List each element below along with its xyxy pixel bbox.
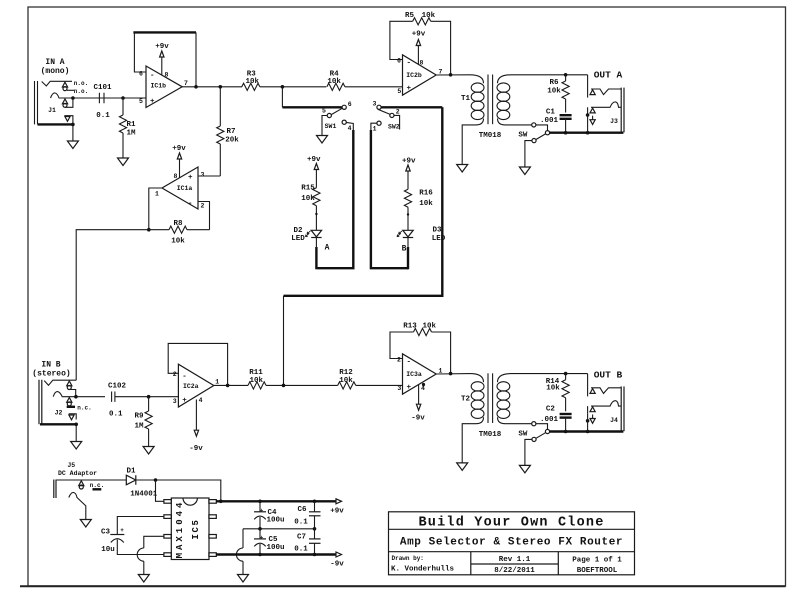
junction C4 top node xyxy=(258,500,262,504)
junction C2 bottom node xyxy=(564,430,568,434)
junction C6 top node xyxy=(313,500,317,504)
ground (J1) xyxy=(67,141,78,149)
switch SW1 xyxy=(282,87,353,136)
svg-text:10k: 10k xyxy=(245,78,259,86)
junction R5 output node A xyxy=(449,73,453,77)
svg-text:C7: C7 xyxy=(297,534,306,542)
svg-text:R9: R9 xyxy=(134,413,144,421)
svg-text:10k: 10k xyxy=(301,195,315,203)
svg-text:C3: C3 xyxy=(101,529,111,537)
svg-text:n.o.: n.o. xyxy=(74,80,88,87)
wire +9v rail xyxy=(216,500,336,502)
svg-text:10k: 10k xyxy=(419,200,433,208)
svg-text:8: 8 xyxy=(420,60,424,67)
-9v power (IC2a) xyxy=(189,400,203,454)
wire -9v rail with hop xyxy=(216,553,336,555)
wire T2 secondary top to OUT B xyxy=(511,373,588,375)
wire IC1a - input feedback xyxy=(198,202,210,230)
svg-text:5: 5 xyxy=(397,88,401,95)
op-amp IC1a xyxy=(155,167,205,210)
wire IC1b output xyxy=(182,86,242,88)
svg-text:C6: C6 xyxy=(297,506,307,514)
svg-text:Build Your Own Clone: Build Your Own Clone xyxy=(418,516,604,531)
wire R11 to R12 xyxy=(266,384,338,386)
svg-text:+: + xyxy=(188,174,193,182)
resistor R5 feedback xyxy=(390,12,451,75)
junction C4 bottom node xyxy=(258,527,262,531)
svg-text:2: 2 xyxy=(173,371,177,378)
capacitor C1 xyxy=(540,109,572,133)
svg-text:DC Adaptor: DC Adaptor xyxy=(58,470,97,477)
svg-text:+: + xyxy=(407,85,412,93)
svg-text:6: 6 xyxy=(348,101,352,108)
op-amp IC3a xyxy=(397,354,443,394)
svg-text:-9v: -9v xyxy=(411,415,425,423)
jack J4 xyxy=(586,374,624,432)
svg-text:R8: R8 xyxy=(173,220,183,228)
svg-text:+: + xyxy=(260,534,264,541)
ground (SW B) xyxy=(519,465,530,473)
svg-text:10k: 10k xyxy=(423,323,437,331)
resistor R8 xyxy=(149,220,210,246)
svg-text:LED: LED xyxy=(432,235,446,243)
+9v power (IC1b) xyxy=(155,43,169,75)
wire SW2 pin3 to channel B node xyxy=(284,107,443,295)
transformer T2 xyxy=(461,373,532,463)
LED D3 xyxy=(397,227,446,249)
switch SW (out A ground lift) xyxy=(518,123,549,167)
+9v power (IC1a) xyxy=(172,145,186,178)
wire D1 to IC5 xyxy=(136,480,221,501)
capacitor C5 xyxy=(254,529,285,555)
svg-text:T2: T2 xyxy=(461,396,471,404)
wire OUT B ground rail xyxy=(550,430,624,432)
node R7 junction xyxy=(219,85,223,89)
junction R6 node xyxy=(564,73,568,77)
svg-text:3: 3 xyxy=(201,172,205,179)
wire OUT A ground rail xyxy=(550,131,624,133)
wire mid ground rail xyxy=(243,528,315,530)
junction D1 output node xyxy=(154,478,158,482)
svg-text:8: 8 xyxy=(165,72,169,79)
capacitor C7 xyxy=(294,529,320,555)
svg-text:J4: J4 xyxy=(610,417,618,424)
svg-text:C102: C102 xyxy=(108,383,127,391)
svg-text:K. Vonderhulls: K. Vonderhulls xyxy=(391,566,455,574)
svg-text:1M: 1M xyxy=(126,130,136,138)
svg-text:+9v: +9v xyxy=(155,43,169,51)
svg-text:C2: C2 xyxy=(546,405,556,413)
resistor R1 xyxy=(119,98,136,158)
svg-text:R12: R12 xyxy=(339,369,353,377)
-9v power (IC3a) xyxy=(411,383,425,423)
svg-text:B: B xyxy=(402,245,407,254)
svg-text:n.c.: n.c. xyxy=(90,482,104,489)
svg-text:20k: 20k xyxy=(225,137,239,145)
capacitor C3 xyxy=(101,517,164,555)
junction D1 bypass node xyxy=(219,500,223,504)
svg-text:IC5: IC5 xyxy=(191,518,201,539)
resistor R13 feedback xyxy=(390,323,451,374)
svg-text:8/22/2011: 8/22/2011 xyxy=(494,567,535,575)
jack J2 xyxy=(39,380,105,442)
resistor R12 xyxy=(338,369,356,389)
svg-text:0.1: 0.1 xyxy=(294,546,308,554)
svg-text:IC2a: IC2a xyxy=(183,383,199,390)
junction R14 node xyxy=(564,372,568,376)
svg-text:IN A: IN A xyxy=(45,58,64,67)
svg-text:R11: R11 xyxy=(249,369,263,377)
op-amp IC2b xyxy=(397,55,443,95)
svg-text:SW: SW xyxy=(518,132,528,140)
svg-text:+: + xyxy=(120,527,124,534)
svg-text:C1: C1 xyxy=(546,109,556,117)
resistor R9 xyxy=(134,397,152,447)
svg-text:n.o.: n.o. xyxy=(74,88,88,95)
svg-text:SW: SW xyxy=(518,430,528,438)
svg-text:TM018: TM018 xyxy=(479,431,502,439)
capacitor C6 xyxy=(294,501,320,529)
svg-text:R1: R1 xyxy=(126,121,136,129)
svg-text:-: - xyxy=(188,200,193,208)
junction R13 output node B xyxy=(449,372,453,376)
ground (SW A) xyxy=(519,167,530,175)
wire C101 to IC1b xyxy=(104,97,146,99)
svg-text:(mono): (mono) xyxy=(41,67,70,76)
svg-text:J1: J1 xyxy=(48,107,56,114)
svg-text:+: + xyxy=(407,384,412,392)
svg-text:4: 4 xyxy=(421,385,425,392)
+9v power (R16) xyxy=(402,158,416,190)
svg-text:R7: R7 xyxy=(226,128,235,136)
resistor R14 xyxy=(546,374,569,412)
wire IC2b output xyxy=(436,74,470,76)
wire R12 to IC3a xyxy=(356,384,403,386)
svg-text:A: A xyxy=(325,244,330,253)
capacitor C4 xyxy=(254,501,285,529)
svg-text:10k: 10k xyxy=(547,88,561,96)
switch SW2 xyxy=(371,101,442,133)
junction R9 node xyxy=(147,395,151,399)
+9v power (R15) xyxy=(307,156,321,188)
svg-text:Drawn by:: Drawn by: xyxy=(392,555,424,562)
wire IC3a output xyxy=(436,373,470,375)
resistor R6 xyxy=(547,75,569,113)
svg-text:D3: D3 xyxy=(432,227,442,235)
svg-text:OUT B: OUT B xyxy=(594,369,623,380)
wire SW1 pin4 loop to LED D2 xyxy=(318,130,354,268)
svg-text:TM018: TM018 xyxy=(479,132,502,140)
svg-text:+9v: +9v xyxy=(402,158,416,166)
svg-text:(stereo): (stereo) xyxy=(32,370,70,379)
junction J4 sleeve node xyxy=(586,430,590,434)
svg-text:C101: C101 xyxy=(93,84,112,92)
resistor R16 xyxy=(404,189,433,230)
svg-text:SW2: SW2 xyxy=(388,124,400,131)
svg-text:10k: 10k xyxy=(422,12,436,20)
svg-text:R6: R6 xyxy=(549,79,559,87)
svg-text:2: 2 xyxy=(396,109,400,116)
junction C1 bottom node xyxy=(564,131,568,135)
svg-text:-: - xyxy=(150,72,155,80)
svg-text:R16: R16 xyxy=(419,190,433,198)
svg-text:3: 3 xyxy=(373,101,377,108)
svg-text:IC2b: IC2b xyxy=(406,72,422,79)
jack J5 xyxy=(54,480,127,520)
svg-text:R13: R13 xyxy=(403,323,417,331)
svg-text:1N4001: 1N4001 xyxy=(130,491,158,499)
svg-text:3: 3 xyxy=(397,385,401,392)
wire feedback loop IC1b xyxy=(134,32,146,72)
svg-text:10k: 10k xyxy=(546,384,560,392)
ground (R9) xyxy=(143,447,154,455)
svg-text:+: + xyxy=(182,397,187,405)
resistor R3 xyxy=(242,71,260,91)
wire IC2a output xyxy=(214,384,248,386)
svg-text:0.1: 0.1 xyxy=(109,411,123,419)
capacitor C102 xyxy=(108,383,127,419)
svg-text:2: 2 xyxy=(397,357,401,364)
op-amp IC2a xyxy=(173,364,220,407)
wire C102 to IC2a xyxy=(115,396,178,398)
transformer T1 xyxy=(461,75,532,165)
ground (mid rail) xyxy=(238,575,249,583)
IC5 MAX1044 xyxy=(164,498,216,560)
svg-text:1: 1 xyxy=(373,126,377,133)
svg-text:-: - xyxy=(407,359,412,367)
ground (IC5 pin3) xyxy=(138,575,149,583)
svg-text:0.1: 0.1 xyxy=(96,112,110,120)
svg-text:0.1: 0.1 xyxy=(294,519,308,527)
svg-text:J3: J3 xyxy=(610,118,618,125)
junction C6 bottom node xyxy=(313,527,317,531)
ground (T1 primary) xyxy=(457,165,468,173)
svg-text:IC1b: IC1b xyxy=(150,83,166,90)
svg-text:6: 6 xyxy=(397,58,401,65)
svg-text:-9v: -9v xyxy=(189,445,203,453)
svg-text:1: 1 xyxy=(215,379,219,386)
svg-text:+9v: +9v xyxy=(172,145,186,153)
svg-text:10k: 10k xyxy=(327,78,341,86)
resistor R15 xyxy=(301,185,320,231)
svg-text:10k: 10k xyxy=(171,238,185,246)
wire R8 node to IN B tip contact xyxy=(76,230,149,381)
junction C7 bottom node xyxy=(313,553,317,557)
wire R3 to R4 xyxy=(260,86,327,88)
junction IC1b feedback node xyxy=(194,85,198,89)
wire feedback loop IC2a xyxy=(168,343,227,385)
title block xyxy=(389,512,635,575)
jack J1 xyxy=(35,80,105,141)
svg-text:R5: R5 xyxy=(405,12,415,20)
svg-text:OUT A: OUT A xyxy=(594,70,623,81)
svg-text:100u: 100u xyxy=(266,544,284,552)
svg-text:n.c.: n.c. xyxy=(77,405,91,412)
ground (R1) xyxy=(118,158,129,166)
svg-text:IN B: IN B xyxy=(41,361,60,370)
svg-text:10k: 10k xyxy=(339,377,353,385)
svg-text:7: 7 xyxy=(184,80,188,87)
capacitor C2 xyxy=(540,405,572,431)
capacitor C101 xyxy=(93,84,112,120)
LED D2 xyxy=(291,227,321,248)
svg-text:8: 8 xyxy=(174,173,178,180)
svg-text:D1: D1 xyxy=(126,468,136,476)
junction IC2a feedback node xyxy=(226,384,230,388)
svg-text:100u: 100u xyxy=(266,517,284,525)
resistor R4 xyxy=(327,71,345,91)
ground (SW1) xyxy=(317,136,328,144)
op-amp IC1b xyxy=(139,66,188,108)
junction IC1a output node xyxy=(147,228,151,232)
svg-text:1: 1 xyxy=(155,191,159,198)
wire R4 to IC2b xyxy=(345,86,403,88)
svg-text:Amp Selector & Stereo FX Route: Amp Selector & Stereo FX Router xyxy=(400,537,623,549)
svg-text:10k: 10k xyxy=(250,377,264,385)
wire IC1a + input from R7 xyxy=(198,175,220,177)
diode D1 1N4001 xyxy=(126,468,157,499)
svg-text:J2: J2 xyxy=(55,410,63,417)
ground (T2 primary) xyxy=(457,463,468,471)
junction channel B switch node xyxy=(282,384,286,388)
svg-text:+: + xyxy=(260,507,264,514)
svg-text:IC3a: IC3a xyxy=(406,371,422,378)
svg-text:SW1: SW1 xyxy=(325,123,337,130)
+9v power (IC2b) xyxy=(412,30,426,64)
resistor R11 xyxy=(248,369,266,389)
svg-text:-: - xyxy=(182,373,187,381)
wire T1 secondary top to OUT A xyxy=(511,74,588,76)
svg-text:C5: C5 xyxy=(268,536,278,544)
svg-text:J5: J5 xyxy=(67,462,75,469)
svg-text:10u: 10u xyxy=(101,546,115,554)
svg-text:-: - xyxy=(407,60,412,68)
svg-text:Rev 1.1: Rev 1.1 xyxy=(499,556,531,564)
ground (J2) xyxy=(71,442,82,450)
svg-text:T1: T1 xyxy=(461,95,471,103)
svg-text:IC1a: IC1a xyxy=(177,185,193,192)
svg-text:LED: LED xyxy=(291,235,305,243)
switch SW (out B ground lift) xyxy=(518,422,549,466)
junction C5 bottom node xyxy=(258,553,262,557)
jack J3 xyxy=(586,75,624,133)
ground (J5) xyxy=(80,520,91,528)
svg-text:+9v: +9v xyxy=(412,30,426,38)
svg-text:MAX1044: MAX1044 xyxy=(175,500,185,559)
wire SW2 pin1 loop to LED D3 xyxy=(371,130,408,268)
svg-text:2: 2 xyxy=(201,203,205,210)
svg-text:4: 4 xyxy=(348,125,352,132)
svg-text:R15: R15 xyxy=(301,185,315,193)
svg-text:D2: D2 xyxy=(293,227,303,235)
svg-text:Page 1 of 1: Page 1 of 1 xyxy=(572,557,622,565)
svg-text:.001: .001 xyxy=(540,117,559,125)
svg-text:-9v: -9v xyxy=(330,561,344,569)
svg-text:BOEFTROOL: BOEFTROOL xyxy=(577,567,618,575)
svg-text:4: 4 xyxy=(199,397,203,404)
resistor R7 xyxy=(217,87,240,176)
svg-text:.001: .001 xyxy=(540,416,559,424)
svg-text:3: 3 xyxy=(173,398,177,405)
junction J3 sleeve node xyxy=(586,131,590,135)
svg-text:+9v: +9v xyxy=(307,156,321,164)
svg-text:+9v: +9v xyxy=(330,508,344,516)
svg-text:+: + xyxy=(150,98,155,106)
svg-text:1M: 1M xyxy=(134,423,144,431)
wire IC1a output xyxy=(149,188,162,230)
svg-text:5: 5 xyxy=(139,98,143,105)
svg-text:5: 5 xyxy=(322,108,326,115)
junction R1 node xyxy=(121,96,125,100)
wire IC5 pin3 to ground with hop xyxy=(144,536,164,548)
node A switch branch xyxy=(281,85,285,89)
